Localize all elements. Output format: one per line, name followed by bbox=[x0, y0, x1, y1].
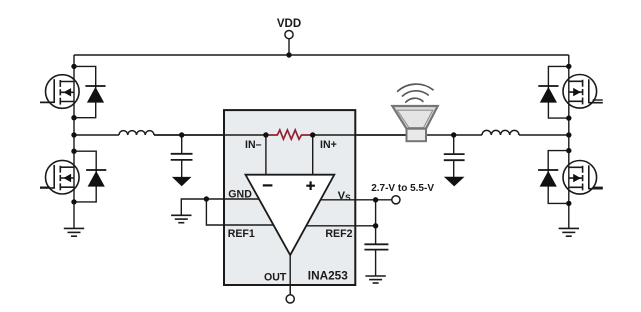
svg-text:2.7-V to 5.5-V: 2.7-V to 5.5-V bbox=[371, 183, 434, 194]
svg-text:INA253: INA253 bbox=[308, 268, 348, 282]
svg-text:REF2: REF2 bbox=[325, 228, 352, 240]
svg-text:VDD: VDD bbox=[277, 18, 301, 30]
svg-text:GND: GND bbox=[228, 188, 252, 200]
svg-text:IN–: IN– bbox=[245, 139, 262, 151]
svg-text:IN+: IN+ bbox=[320, 139, 337, 151]
svg-text:REF1: REF1 bbox=[228, 228, 255, 240]
svg-text:OUT: OUT bbox=[264, 272, 287, 284]
